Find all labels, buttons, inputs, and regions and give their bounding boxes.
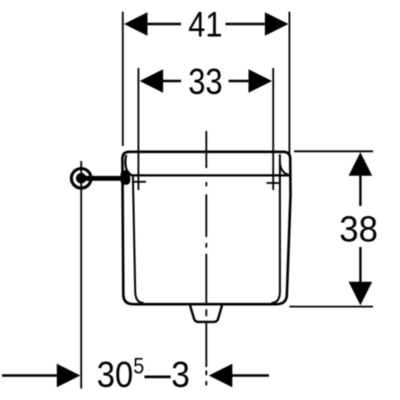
cistern outer outline [122, 152, 290, 304]
dim 38 line bottom segment [359, 247, 361, 283]
supply connection inner dot [76, 173, 87, 184]
inner side line left [133, 176, 144, 303]
dim 41 right extension line [288, 12, 290, 155]
rim right end curve [280, 163, 289, 176]
dim 33 left arrowhead [140, 69, 164, 93]
dim 33 line left segment [162, 80, 181, 82]
svg-text:33: 33 [188, 61, 222, 102]
water supply crosshair line [80, 161, 82, 389]
dim 41 line right segment [226, 23, 267, 25]
inner side line right [272, 154, 280, 303]
bottom dim line right segment [232, 374, 269, 376]
cross mark right [267, 182, 281, 184]
dim 38 down arrowhead [349, 282, 373, 306]
svg-text:41: 41 [188, 5, 222, 44]
cross mark left [132, 181, 146, 183]
supply elbow fitting [121, 170, 131, 185]
dim 38 bottom extension line [290, 306, 374, 308]
svg-text:30: 30 [97, 354, 133, 395]
cistern rim line (lid joint) [125, 155, 289, 176]
bottom dim left-pointing arrowhead [209, 364, 233, 388]
svg-text:3: 3 [171, 354, 190, 395]
supply pipe [86, 176, 124, 181]
dim 41 line left segment [146, 23, 181, 25]
dim 41 right arrowhead [265, 12, 289, 36]
centerline vertical dash-dot [205, 131, 207, 386]
dim 38 up arrowhead [349, 152, 373, 176]
dim 33 line right segment [229, 80, 251, 82]
supply connection circle [71, 169, 91, 189]
dim 33 right extension line [272, 68, 274, 190]
flush outlet stub [190, 305, 222, 322]
bottom dim label dash [145, 376, 171, 379]
dim 38 line top segment [359, 175, 361, 207]
svg-text:5: 5 [133, 353, 144, 378]
dim 41 left arrowhead [124, 12, 148, 36]
dim 38 top extension line [294, 150, 373, 152]
dim 33 left extension line [137, 68, 139, 190]
bottom dim right-pointing arrowhead [57, 364, 81, 388]
dim 41 left extension line [122, 12, 124, 146]
svg-text:38: 38 [339, 209, 378, 250]
bottom dim line left segment [2, 374, 58, 376]
dim 33 right arrowhead [249, 69, 273, 93]
